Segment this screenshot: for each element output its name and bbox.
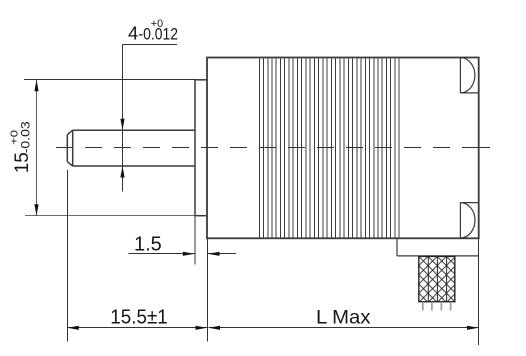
dim 15.5 arrow right: [196, 326, 208, 330]
dim L Max arrow right: [467, 326, 479, 330]
dim 15 extension bottom: [25, 215, 195, 217]
dim 4 arrow down: [120, 119, 124, 131]
dim 4 arrow up: [120, 166, 124, 178]
svg-text:4: 4: [128, 22, 138, 43]
dim 4 leader shoulder: [123, 44, 178, 46]
terminal base band: [397, 238, 479, 256]
dim L Max line: [209, 327, 479, 329]
right edge extension down: [478, 238, 480, 345]
dim 15.5 arrow left: [67, 326, 79, 330]
svg-text:L Max: L Max: [316, 306, 371, 328]
rear bearing boss top (D shape): [460, 58, 478, 93]
dim 15 arrow down: [34, 204, 38, 216]
body left extension down: [207, 238, 209, 341]
connector pins: [423, 302, 451, 311]
motor body outline: [207, 58, 479, 239]
dim 15.5 line: [67, 327, 207, 329]
shaft: [67, 130, 195, 166]
svg-text:15: 15: [12, 152, 33, 173]
dim 15 arrow up: [34, 80, 38, 92]
shaft tip extension down: [67, 170, 69, 342]
rear bearing boss bottom (D shape): [460, 203, 478, 238]
dim 1.5 left extension line continuation: [194, 216, 196, 265]
dim 1.5 arrow right: [183, 252, 195, 256]
svg-text:15.5±1: 15.5±1: [110, 306, 168, 328]
dim 15 extension top: [24, 79, 195, 81]
connector body (crosshatched): [419, 256, 455, 301]
centerline: [56, 147, 489, 149]
dim 4 leader vertical: [122, 45, 124, 131]
centerline dash across right edge: [479, 147, 490, 149]
fins (lamination lines): [259, 59, 399, 238]
svg-text:-0.012: -0.012: [139, 26, 179, 44]
dim 15 rotated text: [9, 121, 34, 173]
svg-text:+0: +0: [9, 130, 21, 145]
dim 1.5 line left part: [129, 253, 195, 255]
dim 1.5 arrow left: [208, 252, 220, 256]
dim 1.5 line right part: [208, 253, 236, 255]
dim L Max arrow left: [209, 326, 221, 330]
svg-text:-0.03: -0.03: [19, 121, 33, 153]
front pilot plate: [195, 80, 207, 216]
svg-text:1.5: 1.5: [134, 233, 162, 255]
dim 15 line: [36, 80, 38, 216]
